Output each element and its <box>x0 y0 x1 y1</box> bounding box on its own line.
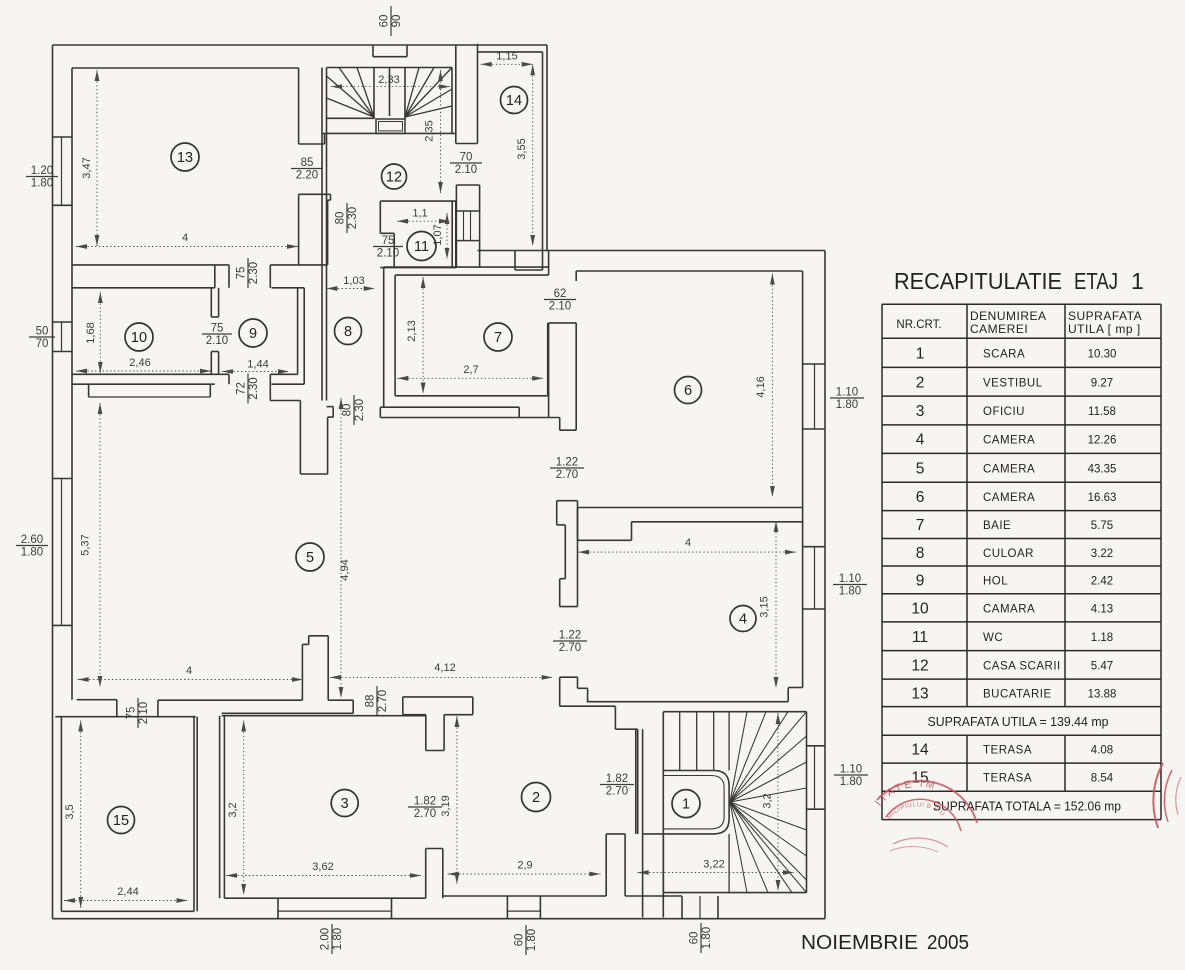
svg-text:1,03: 1,03 <box>343 275 364 287</box>
svg-text:9: 9 <box>916 572 925 589</box>
svg-text:6: 6 <box>684 383 692 399</box>
svg-text:CAMEREI: CAMEREI <box>970 322 1028 336</box>
svg-text:60: 60 <box>514 934 526 947</box>
svg-text:11.58: 11.58 <box>1088 406 1116 418</box>
svg-text:2,13: 2,13 <box>406 320 418 341</box>
svg-text:13.88: 13.88 <box>1088 688 1117 700</box>
svg-text:2,33: 2,33 <box>378 74 399 86</box>
svg-text:4: 4 <box>685 537 691 549</box>
svg-text:1,44: 1,44 <box>247 359 268 371</box>
svg-text:60: 60 <box>689 932 701 945</box>
svg-text:3: 3 <box>916 403 925 420</box>
svg-text:CULOAR: CULOAR <box>983 548 1034 560</box>
svg-text:12.26: 12.26 <box>1088 435 1117 447</box>
svg-text:OFICIU: OFICIU <box>983 406 1025 418</box>
svg-text:11: 11 <box>912 629 928 646</box>
svg-text:CAMERA: CAMERA <box>983 463 1035 475</box>
svg-text:2,46: 2,46 <box>129 357 150 369</box>
svg-text:2.00: 2.00 <box>320 928 332 950</box>
svg-text:2.30: 2.30 <box>347 207 359 229</box>
svg-text:NR.CRT.: NR.CRT. <box>896 319 941 331</box>
svg-text:16.63: 16.63 <box>1088 492 1117 504</box>
svg-text:1.80: 1.80 <box>836 399 858 411</box>
svg-text:UTILA [ mp ]: UTILA [ mp ] <box>1068 322 1141 336</box>
svg-text:1.80: 1.80 <box>526 929 538 951</box>
svg-text:3.22: 3.22 <box>1091 548 1113 560</box>
svg-text:1.10: 1.10 <box>839 573 861 585</box>
svg-text:2.10: 2.10 <box>138 702 150 724</box>
svg-text:SUPRAFATA TOTALA = 152.06 mp: SUPRAFATA TOTALA = 152.06 mp <box>933 799 1121 813</box>
svg-text:1.80: 1.80 <box>839 586 861 598</box>
svg-text:SUPRAFATA UTILA = 139.44 mp: SUPRAFATA UTILA = 139.44 mp <box>928 715 1109 729</box>
svg-text:4: 4 <box>916 432 925 449</box>
svg-text:1: 1 <box>1131 268 1144 294</box>
svg-text:80: 80 <box>335 212 347 225</box>
svg-text:CAMARA: CAMARA <box>983 603 1035 615</box>
svg-text:12: 12 <box>911 657 928 674</box>
svg-text:3: 3 <box>341 796 349 812</box>
svg-text:2.70: 2.70 <box>559 642 581 654</box>
svg-text:10: 10 <box>131 330 147 346</box>
svg-text:13: 13 <box>911 685 928 702</box>
svg-text:1,1: 1,1 <box>412 208 427 220</box>
svg-text:1.10: 1.10 <box>836 387 858 399</box>
svg-text:1.80: 1.80 <box>21 547 43 559</box>
svg-text:1.10: 1.10 <box>840 764 862 776</box>
svg-text:TERASA: TERASA <box>983 745 1032 757</box>
svg-text:5,37: 5,37 <box>80 534 92 555</box>
svg-text:6: 6 <box>916 489 925 506</box>
svg-text:14: 14 <box>911 742 929 759</box>
svg-text:75: 75 <box>126 707 138 720</box>
svg-text:4.13: 4.13 <box>1091 603 1113 615</box>
svg-text:2.20: 2.20 <box>296 170 318 182</box>
svg-text:9: 9 <box>249 326 257 342</box>
svg-text:8.54: 8.54 <box>1091 773 1114 785</box>
svg-text:1: 1 <box>916 345 925 362</box>
svg-text:2.30: 2.30 <box>248 377 260 399</box>
svg-text:14: 14 <box>506 93 522 109</box>
svg-text:3,2: 3,2 <box>762 793 774 808</box>
svg-text:2.70: 2.70 <box>606 786 628 798</box>
svg-text:13: 13 <box>177 150 193 166</box>
svg-text:CAMERA: CAMERA <box>983 492 1035 504</box>
svg-text:ETAJ: ETAJ <box>1074 268 1118 294</box>
svg-text:62: 62 <box>554 288 567 300</box>
svg-text:CASA SCARII: CASA SCARII <box>983 660 1061 672</box>
svg-text:9.27: 9.27 <box>1091 377 1113 389</box>
svg-text:1.20: 1.20 <box>31 165 53 177</box>
svg-text:2.10: 2.10 <box>377 248 399 260</box>
svg-text:NOIEMBRIE: NOIEMBRIE <box>801 931 918 954</box>
svg-text:10: 10 <box>911 600 929 617</box>
svg-text:7: 7 <box>494 330 502 346</box>
svg-text:3,62: 3,62 <box>312 861 333 873</box>
svg-text:DENUMIREA: DENUMIREA <box>970 309 1047 323</box>
svg-text:15: 15 <box>113 813 129 829</box>
svg-text:BUCATARIE: BUCATARIE <box>983 688 1052 700</box>
svg-text:1.80: 1.80 <box>332 928 344 950</box>
svg-text:8: 8 <box>344 324 352 340</box>
svg-text:2: 2 <box>532 790 540 806</box>
svg-text:70: 70 <box>460 152 473 164</box>
svg-text:4,12: 4,12 <box>434 662 455 674</box>
svg-text:2.60: 2.60 <box>21 534 43 546</box>
svg-text:5: 5 <box>916 460 925 477</box>
svg-text:SUPRAFATA: SUPRAFATA <box>1068 309 1142 323</box>
svg-text:BAIE: BAIE <box>983 520 1011 532</box>
svg-text:75: 75 <box>211 323 224 335</box>
svg-text:75: 75 <box>382 235 395 247</box>
svg-text:1,07: 1,07 <box>432 224 444 245</box>
svg-text:1,68: 1,68 <box>85 322 97 343</box>
svg-text:3,55: 3,55 <box>516 138 528 159</box>
svg-text:2.42: 2.42 <box>1091 575 1113 587</box>
svg-text:2,35: 2,35 <box>424 120 436 141</box>
svg-text:RECAPITULATIE: RECAPITULATIE <box>894 268 1062 294</box>
svg-text:1.80: 1.80 <box>701 927 713 949</box>
svg-text:2,9: 2,9 <box>517 860 532 872</box>
svg-text:2.30: 2.30 <box>354 399 366 421</box>
svg-text:1: 1 <box>682 797 690 813</box>
svg-text:50: 50 <box>36 326 49 338</box>
svg-text:75: 75 <box>236 267 248 280</box>
svg-text:3,47: 3,47 <box>81 157 93 178</box>
svg-text:1.22: 1.22 <box>556 457 578 469</box>
svg-text:1.80: 1.80 <box>31 178 53 190</box>
svg-text:2005: 2005 <box>927 931 969 954</box>
svg-text:1.80: 1.80 <box>840 776 862 788</box>
svg-text:3,22: 3,22 <box>703 859 724 871</box>
svg-text:88: 88 <box>365 695 377 708</box>
svg-text:SCARA: SCARA <box>983 348 1025 360</box>
svg-text:2.30: 2.30 <box>248 262 260 284</box>
svg-text:1.82: 1.82 <box>414 796 436 808</box>
svg-text:3,19: 3,19 <box>440 795 452 816</box>
svg-text:1.22: 1.22 <box>559 630 581 642</box>
svg-text:2.10: 2.10 <box>206 335 228 347</box>
svg-text:80: 80 <box>342 404 354 417</box>
svg-text:4: 4 <box>186 665 192 677</box>
svg-text:60: 60 <box>379 15 391 28</box>
svg-text:2: 2 <box>916 374 925 391</box>
svg-text:8: 8 <box>916 545 925 562</box>
svg-text:70: 70 <box>36 338 49 350</box>
svg-text:1.18: 1.18 <box>1091 632 1113 644</box>
svg-text:3,2: 3,2 <box>227 802 239 817</box>
svg-text:90: 90 <box>391 15 403 28</box>
svg-text:4: 4 <box>739 612 747 628</box>
svg-text:2,44: 2,44 <box>117 886 138 898</box>
svg-text:2.10: 2.10 <box>549 301 571 313</box>
svg-text:85: 85 <box>301 157 314 169</box>
svg-text:2.70: 2.70 <box>556 469 578 481</box>
svg-text:1.82: 1.82 <box>606 773 628 785</box>
svg-text:TERASA: TERASA <box>983 773 1032 785</box>
svg-text:HOL: HOL <box>983 575 1008 587</box>
svg-text:12: 12 <box>386 170 402 186</box>
svg-text:5.75: 5.75 <box>1091 520 1113 532</box>
svg-text:2.70: 2.70 <box>414 808 436 820</box>
svg-text:1,15: 1,15 <box>496 51 517 63</box>
svg-text:3,15: 3,15 <box>759 596 771 617</box>
svg-text:2,7: 2,7 <box>463 364 478 376</box>
svg-text:2.70: 2.70 <box>377 690 389 712</box>
svg-text:7: 7 <box>916 517 925 534</box>
svg-text:43.35: 43.35 <box>1088 463 1117 475</box>
svg-text:72: 72 <box>236 382 248 395</box>
svg-text:WC: WC <box>983 632 1003 644</box>
svg-text:2.10: 2.10 <box>455 164 477 176</box>
svg-text:VESTIBUL: VESTIBUL <box>983 377 1043 389</box>
svg-text:11: 11 <box>414 239 429 255</box>
svg-text:4.08: 4.08 <box>1091 745 1113 757</box>
svg-text:10.30: 10.30 <box>1088 348 1117 360</box>
svg-text:CAMERA: CAMERA <box>983 435 1035 447</box>
svg-text:4: 4 <box>182 232 188 244</box>
svg-text:3,5: 3,5 <box>64 804 76 819</box>
svg-text:4,16: 4,16 <box>755 376 767 397</box>
svg-text:5: 5 <box>306 550 314 566</box>
svg-text:5.47: 5.47 <box>1091 660 1113 672</box>
svg-text:4,94: 4,94 <box>339 559 351 580</box>
